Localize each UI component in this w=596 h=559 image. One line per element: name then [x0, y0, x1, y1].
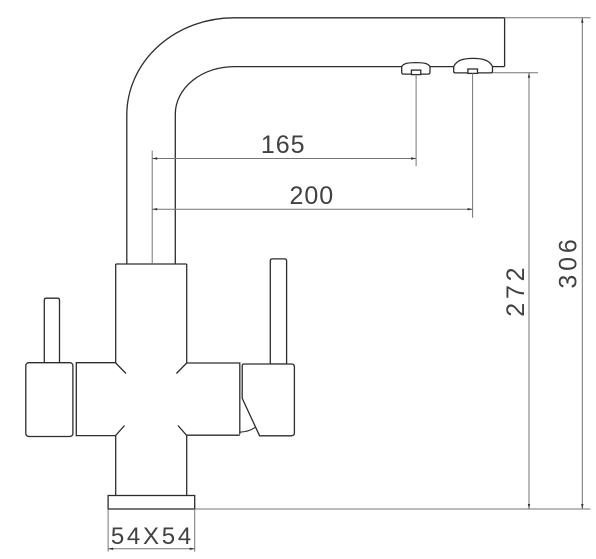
- base plate 54x54: [108, 496, 195, 510]
- chamfer bottom-left: [116, 426, 125, 436]
- base extension line left: [107, 509, 109, 552]
- chamfer bottom-right: [178, 426, 187, 436]
- arrow 306 top: [581, 18, 583, 23]
- extension line at outlets level for 272: [493, 72, 539, 74]
- aerator outlet left (filtered water): [402, 63, 430, 75]
- faucet body right side: [186, 264, 188, 363]
- aerator outlet right (main water): [454, 58, 493, 73]
- right handle body (rotated lever, cut corner): [242, 364, 294, 436]
- spout inner outline: [175, 67, 401, 264]
- arrow 272 top: [528, 73, 530, 78]
- dimension line 200: [152, 208, 472, 210]
- arrow 165 left: [152, 157, 157, 159]
- svg-text:54X54: 54X54: [111, 523, 194, 550]
- arrow 165 right: [411, 157, 416, 159]
- arrow 54 right: [190, 548, 195, 550]
- svg-text:272: 272: [502, 264, 530, 317]
- lower column right: [186, 435, 188, 495]
- right handle lever rod: [270, 259, 286, 364]
- arrow 54 left: [108, 548, 113, 550]
- spout bottom right segment: [493, 66, 505, 68]
- dimension line 54x54: [108, 548, 195, 550]
- svg-text:200: 200: [289, 182, 334, 210]
- dimension line 272: [528, 73, 530, 509]
- left handle lever rod: [44, 298, 59, 363]
- extension line right outlet: [472, 73, 474, 217]
- arrow 272 bottom: [528, 504, 530, 509]
- right handle bottom arc: [240, 428, 255, 433]
- base extension line right: [194, 509, 196, 552]
- faucet body left side: [115, 264, 117, 363]
- spout outer outline: [127, 18, 505, 264]
- spout end face: [504, 18, 506, 67]
- centerline extension: [151, 151, 153, 264]
- dimension line 306: [581, 18, 583, 509]
- top extension line for 306: [505, 17, 591, 19]
- svg-text:165: 165: [261, 131, 306, 159]
- arrow 200 left: [152, 208, 157, 210]
- chamfer top-right: [176, 363, 186, 374]
- left handle body: [26, 363, 73, 437]
- chamfer top-left: [116, 363, 126, 374]
- svg-text:306: 306: [555, 235, 583, 288]
- right arm: [187, 363, 240, 435]
- baseline extension: [195, 508, 591, 510]
- dimension line 165: [152, 158, 416, 160]
- faucet body top: [116, 263, 187, 265]
- lower column left: [115, 435, 117, 495]
- arrow 200 right: [468, 208, 473, 210]
- spout bottom between outlets: [430, 66, 454, 68]
- arrow 306 bottom: [581, 504, 583, 509]
- extension line left outlet: [415, 75, 417, 167]
- left arm: [76, 363, 115, 436]
